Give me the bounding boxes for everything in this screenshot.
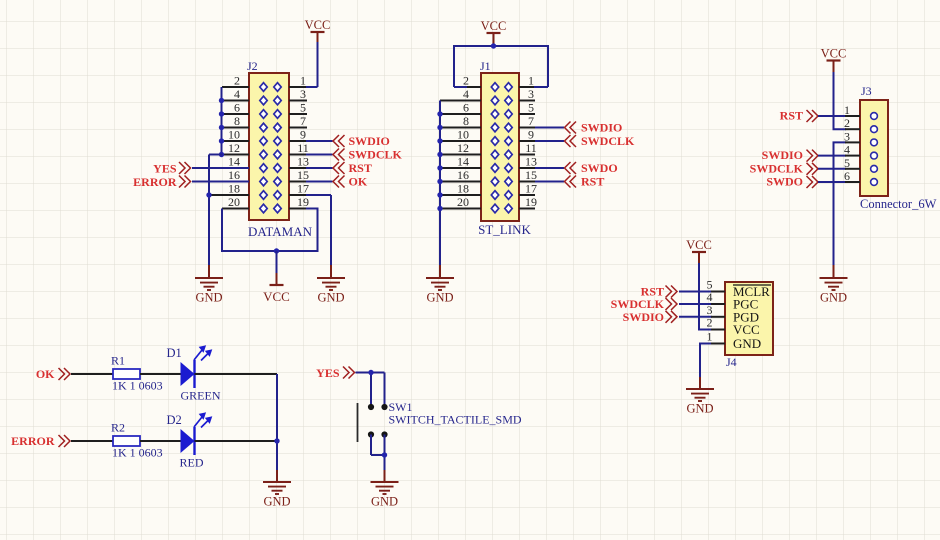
net label RST at J2 (333, 162, 345, 174)
svg-text:10: 10 (457, 128, 469, 142)
junction J1 bus pin10 (437, 138, 442, 143)
ground J2 left (195, 278, 223, 290)
switch SW1 (358, 403, 388, 442)
resistor R2 (113, 436, 140, 446)
svg-text:7: 7 (528, 114, 534, 128)
connector J3 body (860, 100, 888, 196)
wire J2 VCC drop (276, 251, 278, 285)
wire J2 GND bus upper (221, 87, 223, 155)
svg-text:19: 19 (297, 195, 309, 209)
svg-text:7: 7 (300, 114, 306, 128)
wire net SWDCLK to J3 (818, 168, 860, 170)
wire D2 cathode (195, 440, 278, 442)
svg-text:RST: RST (349, 161, 372, 175)
D2 emission arrows (194, 413, 211, 427)
wire J1 VCC rail (454, 46, 548, 87)
ground LEDs (263, 482, 291, 494)
svg-text:SWDCLK: SWDCLK (581, 134, 635, 148)
svg-text:J3: J3 (861, 84, 872, 98)
wire J3 pin3 to GND (834, 142, 861, 278)
junction J1 bus pin14 (437, 165, 442, 170)
svg-text:VCC: VCC (686, 238, 712, 252)
wire J1 pin17 stub (519, 194, 535, 196)
ground J4 (686, 389, 714, 401)
wire net ERROR to R2 (71, 440, 113, 442)
svg-text:4: 4 (234, 87, 240, 101)
resistor R1 (113, 369, 140, 379)
wire J2 GND bus lower (209, 155, 223, 279)
net label RST at J1 (565, 176, 577, 188)
ground J1 (426, 278, 454, 290)
svg-text:GND: GND (263, 495, 290, 509)
wire J1 pin5 stub (519, 113, 535, 115)
svg-text:D2: D2 (167, 413, 182, 427)
junction J1 bus pin12 (437, 152, 442, 157)
svg-text:3: 3 (300, 87, 306, 101)
svg-text:18: 18 (457, 182, 469, 196)
svg-text:13: 13 (525, 155, 537, 169)
svg-text:RED: RED (180, 456, 204, 470)
svg-text:15: 15 (297, 168, 309, 182)
svg-text:SWDIO: SWDIO (762, 148, 803, 162)
svg-text:J2: J2 (247, 59, 258, 73)
wire R2 to D2 (140, 440, 181, 442)
wire J2 to net SWDCLK (289, 154, 333, 156)
svg-text:OK: OK (349, 175, 368, 189)
power VCC J2 top (311, 31, 325, 33)
wire J1 pin11 stub (519, 154, 535, 156)
ground J3 (820, 278, 848, 290)
svg-text:RST: RST (581, 175, 604, 189)
connector J4 body (725, 282, 773, 355)
wire net RST to J4 (679, 291, 725, 293)
svg-text:YES: YES (153, 162, 177, 176)
wire J2 pin17 to GND (289, 195, 331, 278)
svg-text:14: 14 (228, 155, 240, 169)
svg-text:VCC: VCC (305, 18, 331, 32)
svg-text:J1: J1 (480, 59, 491, 73)
junction SW1 bottom (382, 452, 387, 457)
wire J1 left pin stubs (440, 101, 481, 209)
svg-text:17: 17 (525, 182, 537, 196)
svg-text:6: 6 (463, 101, 469, 115)
junction J1 bus pin20 (437, 206, 442, 211)
wire J1 to net SWDIO (519, 127, 564, 129)
wire J1 to net SWDO (519, 167, 564, 169)
svg-text:RST: RST (780, 109, 803, 123)
svg-text:GREEN: GREEN (181, 389, 221, 403)
svg-text:GND: GND (317, 291, 344, 305)
svg-text:J4: J4 (726, 355, 737, 369)
svg-text:GND: GND (820, 291, 847, 305)
svg-text:SWDIO: SWDIO (623, 310, 664, 324)
junction J2 bus pin8 (219, 125, 224, 130)
wire J2 to net OK (289, 181, 333, 183)
wire net ERROR to J2 pin16 (192, 181, 249, 183)
wire J4 pin1 to GND (700, 344, 725, 390)
svg-text:18: 18 (228, 182, 240, 196)
svg-text:GND: GND (733, 336, 761, 351)
wire LED GND vertical (276, 374, 278, 482)
junction J2 VCC tap (274, 248, 279, 253)
svg-text:SWDCLK: SWDCLK (349, 148, 403, 162)
svg-text:5: 5 (300, 101, 306, 115)
connector J2 body (249, 73, 289, 220)
svg-text:SWDO: SWDO (581, 161, 618, 175)
svg-text:8: 8 (463, 114, 469, 128)
svg-text:2: 2 (463, 74, 469, 88)
svg-text:15: 15 (525, 168, 537, 182)
svg-text:R2: R2 (111, 421, 125, 435)
power VCC J4 top (692, 251, 706, 253)
svg-text:SWITCH_TACTILE_SMD: SWITCH_TACTILE_SMD (389, 413, 522, 427)
wire J2 to net SWDIO (289, 140, 333, 142)
svg-text:VCC: VCC (481, 19, 507, 33)
svg-text:GND: GND (371, 495, 398, 509)
connector J1 body (481, 73, 519, 221)
svg-text:5: 5 (844, 156, 850, 170)
svg-text:4: 4 (844, 143, 850, 157)
svg-text:2: 2 (844, 116, 850, 130)
net label SWDO at J1 (565, 162, 577, 174)
junction J2 bus pin18 (206, 192, 211, 197)
wire net OK to R1 (71, 373, 113, 375)
junction J1 bus pin16 (437, 179, 442, 184)
svg-text:9: 9 (528, 128, 534, 142)
svg-text:GND: GND (426, 291, 453, 305)
svg-text:1K 1 0603: 1K 1 0603 (112, 446, 163, 460)
svg-text:5: 5 (528, 101, 534, 115)
J4 pin name MCLR with overline (733, 284, 771, 299)
junction J2 bus pin4 (219, 98, 224, 103)
wire J1 to net SWDCLK (519, 140, 564, 142)
svg-text:D1: D1 (167, 346, 182, 360)
wire R1 to D1 (140, 373, 181, 375)
svg-text:VCC: VCC (821, 47, 847, 61)
svg-text:11: 11 (297, 141, 309, 155)
ground J2 right (317, 278, 345, 290)
net label SWDCLK at J2 (333, 149, 345, 161)
wire J1 GND bus (439, 101, 441, 279)
D1 emission arrows (194, 346, 211, 360)
svg-text:1: 1 (707, 330, 713, 344)
wire J2 pin7 stub (289, 127, 307, 129)
svg-text:DATAMAN: DATAMAN (248, 224, 313, 239)
svg-text:VCC: VCC (733, 322, 760, 337)
svg-text:GND: GND (195, 291, 222, 305)
LED D1 (181, 360, 195, 388)
wire J1 pin19 stub (519, 208, 535, 210)
svg-text:17: 17 (297, 182, 309, 196)
wire D1 cathode (195, 373, 278, 375)
ground SW1 (371, 482, 399, 494)
svg-text:VCC: VCC (263, 289, 290, 304)
wire net SWDCLK to J4 (679, 303, 725, 305)
wire J1 to net RST (519, 181, 564, 183)
svg-text:13: 13 (297, 155, 309, 169)
net label SWDIO at J2 (333, 135, 345, 147)
wire J2 pin19 pin20 loop (222, 209, 318, 252)
junction LED GND (274, 438, 279, 443)
junction J1 bus pin6 (437, 111, 442, 116)
svg-text:ERROR: ERROR (133, 175, 177, 189)
svg-text:12: 12 (457, 141, 469, 155)
svg-text:16: 16 (228, 168, 240, 182)
wire net YES to SW1 (356, 373, 385, 408)
svg-text:SWDIO: SWDIO (581, 121, 622, 135)
wire net SWDO to J3 (818, 181, 860, 183)
wire net SWDIO to J3 (818, 155, 860, 157)
svg-text:16: 16 (457, 168, 469, 182)
wire J2 pin5 stub (289, 113, 307, 115)
svg-text:1: 1 (300, 74, 306, 88)
svg-text:4: 4 (463, 87, 469, 101)
wire J2 to net RST (289, 167, 333, 169)
svg-text:3: 3 (844, 129, 850, 143)
junction J1 VCC (491, 43, 496, 48)
svg-text:SWDIO: SWDIO (349, 134, 390, 148)
svg-text:Connector_6W: Connector_6W (860, 197, 937, 211)
wire net SWDIO to J4 (679, 316, 725, 318)
wire J2 pin1 to VCC (289, 32, 318, 87)
svg-text:ST_LINK: ST_LINK (478, 222, 531, 237)
svg-text:SWDO: SWDO (766, 175, 803, 189)
svg-text:OK: OK (36, 367, 55, 381)
svg-text:10: 10 (228, 128, 240, 142)
junction J2 bus pin10 (219, 138, 224, 143)
svg-text:20: 20 (457, 195, 469, 209)
wire net RST to J3 (818, 115, 860, 117)
svg-text:1: 1 (528, 74, 534, 88)
svg-text:6: 6 (234, 101, 240, 115)
svg-text:ERROR: ERROR (11, 434, 55, 448)
svg-text:R1: R1 (111, 354, 125, 368)
svg-text:12: 12 (228, 141, 240, 155)
wire J2 left pin stubs (209, 87, 249, 209)
svg-text:9: 9 (300, 128, 306, 142)
wire J1 VCC stub (493, 33, 495, 46)
svg-text:2: 2 (234, 74, 240, 88)
junction J2 bus pin12 (219, 152, 224, 157)
wire SW1 bottom to GND (371, 435, 385, 483)
wire J2 pin3 stub (289, 100, 307, 102)
LED D2 (181, 427, 195, 455)
junction SW1 top (368, 370, 373, 375)
junction J2 bus pin6 (219, 111, 224, 116)
power VCC J2 bottom (270, 284, 284, 286)
net label OK at J2 (333, 176, 345, 188)
power VCC J3 top (827, 59, 841, 61)
wire J4 VCC to pin2 (699, 252, 725, 330)
wire J1 pin3 stub (519, 100, 535, 102)
net label SWDIO at J1 (565, 122, 577, 134)
svg-text:8: 8 (234, 114, 240, 128)
svg-text:6: 6 (844, 169, 850, 183)
power VCC J1 top (487, 32, 501, 34)
svg-text:GND: GND (686, 402, 713, 416)
svg-text:14: 14 (457, 155, 469, 169)
svg-text:19: 19 (525, 195, 537, 209)
svg-text:SWDCLK: SWDCLK (750, 161, 804, 175)
svg-text:3: 3 (528, 87, 534, 101)
svg-text:1: 1 (844, 103, 850, 117)
junction J1 bus pin8 (437, 125, 442, 130)
junction J1 bus pin18 (437, 192, 442, 197)
wire net YES to J2 pin14 (192, 167, 249, 169)
svg-text:YES: YES (316, 366, 340, 380)
wire J3 VCC to pin2 (834, 61, 861, 129)
svg-text:1K 1 0603: 1K 1 0603 (112, 379, 163, 393)
svg-text:20: 20 (228, 195, 240, 209)
net label SWDCLK at J1 (565, 135, 577, 147)
svg-text:11: 11 (525, 141, 537, 155)
